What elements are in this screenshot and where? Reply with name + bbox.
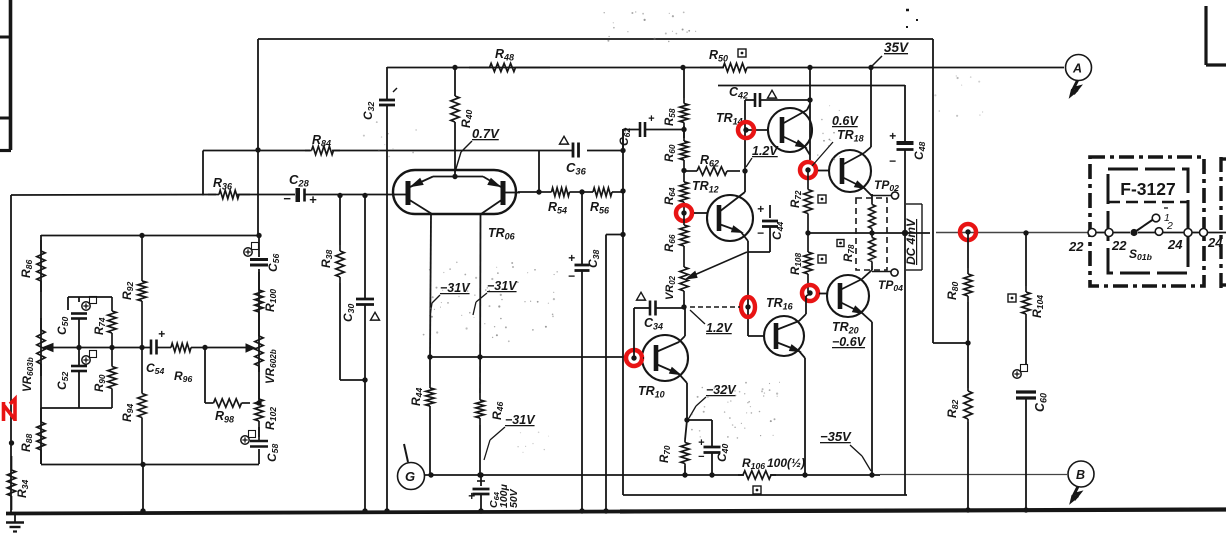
svg-text:−: − [698,451,705,463]
label 35V [872,40,909,66]
adjacent block border top-right [1206,6,1226,65]
svg-text:B: B [1076,468,1085,482]
label R98 [215,409,234,424]
terminal B [1068,461,1094,504]
node output x872 [869,230,874,235]
label 1 [1164,208,1170,224]
node y347 x112 [109,345,114,350]
node x623 y150 [620,148,625,153]
wire TR18 collector [864,67,871,153]
capacitor C34 [634,301,684,359]
svg-text:+: + [158,327,165,341]
wire TR16 collector [799,294,810,321]
wire x603 chain [603,232,625,514]
label R102 [263,407,278,430]
label TR16 [766,296,794,311]
marker triangle C30 [371,312,380,320]
svg-text:−0.6V: −0.6V [832,335,867,349]
svg-text:R74: R74 [94,317,107,335]
marker square R78 [837,240,844,247]
label TR14 [716,111,743,126]
resistor R78 [869,194,876,270]
resistor R34 [7,456,15,510]
svg-text:R48: R48 [495,47,514,62]
node x259 y403 [256,400,261,405]
red circle TR20-base node [802,285,818,301]
capacitor C56 [250,260,268,266]
label TR18 [812,128,864,166]
pot VR603b [37,318,53,376]
svg-text:R54: R54 [548,200,567,215]
svg-text:R72: R72 [790,190,803,208]
svg-text:−32V: −32V [706,383,737,397]
wire TR06 base line right [518,189,542,194]
marker square R72 [818,195,826,203]
resistor R50 [700,63,770,71]
svg-text:R86: R86 [19,260,34,278]
svg-text:1.2V: 1.2V [706,321,733,335]
wire TR10 collector [679,307,685,342]
node C64 top [478,472,483,477]
svg-text:R50: R50 [709,48,728,63]
svg-text:R106: R106 [742,456,765,471]
svg-text:C28: C28 [289,172,310,188]
resistor R44 [426,357,434,478]
label 1.2V upper [746,144,779,167]
resistor R88 [37,408,45,464]
svg-text:+: + [568,251,575,265]
node y347 x142 [139,345,144,350]
svg-text:+: + [309,192,317,207]
svg-text:R38: R38 [319,250,334,268]
node junction rail x871 [868,65,873,70]
capacitor C42 [745,93,813,107]
label R48 [495,47,514,62]
wire x205 drop [202,345,207,403]
pin 22 a [1088,229,1096,237]
resistor R98 [205,399,250,407]
stray marks top right [906,10,918,27]
label C36 [566,160,587,176]
label C52 [55,372,70,390]
testpoint TP04 [891,269,898,276]
wire -35V/G line [424,474,1067,477]
svg-text:C54: C54 [146,361,164,376]
wire input stem [10,195,12,512]
wire TR10 base [643,357,644,359]
marker plus-m C50 [82,297,97,311]
svg-text:R100: R100 [263,289,278,312]
svg-text:VR603b: VR603b [22,357,35,392]
svg-text:VR602b: VR602b [265,349,278,384]
svg-text:C42: C42 [729,85,748,100]
pin 22 b [1105,229,1113,237]
svg-text:DC 4mV: DC 4mV [904,218,918,265]
svg-text:TR20: TR20 [832,320,859,335]
wire TR18 emitter to R78 [864,188,872,196]
svg-text:R62: R62 [700,153,719,168]
wire column x684 [683,67,685,138]
switch contact 2 [1155,228,1163,236]
svg-text:−: − [757,226,764,240]
pin 24 b [1200,229,1208,237]
svg-text:C48: C48 [912,142,927,160]
wire TR12 base [694,212,707,214]
scan noise misc [363,121,549,453]
wire inner box bottom [623,494,907,496]
label 24 b [1207,235,1223,250]
wire TR06 emitter left [430,214,431,357]
label -31V b [473,279,518,315]
transistor TR14 [768,108,812,152]
node C30 bus [362,508,367,513]
label R78 [843,244,856,262]
node x623 y191 [620,188,625,193]
svg-text:−: − [568,269,575,283]
resistor R74 [108,297,116,347]
svg-text:R58: R58 [664,108,677,126]
svg-text:TP02: TP02 [874,178,899,193]
ground bus bottom [6,510,1226,514]
module F-3127 outer box [1090,157,1204,286]
wire 1.2V dashline [690,306,740,308]
label R54 [548,200,567,215]
marker triangle C34 [637,292,646,300]
switch contact 1 [1152,214,1160,222]
red circle TR12-base node [676,205,692,221]
wire TR16 base path [748,298,765,336]
node left net top x259 [256,233,261,238]
label R64 [664,187,677,205]
svg-text:−: − [889,154,896,168]
label R90 [94,374,107,392]
label C50 [55,317,70,335]
svg-text:50V: 50V [508,488,520,508]
wire right column x259 [258,235,260,464]
svg-text:22: 22 [1068,239,1084,254]
node feedback-R84 junction [255,147,260,152]
label C44 [770,222,785,240]
svg-text:+: + [468,489,475,503]
resistor R58 [680,98,688,128]
capacitor C40 [687,420,721,478]
resistor R106 [738,471,776,479]
label C38 [586,250,601,268]
wire left net bottom [41,464,259,466]
svg-text:TR10: TR10 [638,384,665,399]
terminal A [1066,55,1092,98]
label R44 [409,388,424,406]
label C40 [715,444,730,462]
label R60 [664,144,677,162]
svg-text:C34: C34 [644,316,663,331]
svg-text:−31V: −31V [440,281,471,295]
wire R84 line [203,151,539,196]
marker triangle C36 [560,136,569,144]
label R56 [590,200,610,215]
scan noise top middle [604,11,697,42]
svg-text:C30: C30 [341,304,356,322]
svg-text:R98: R98 [215,409,234,424]
svg-text:TR12: TR12 [692,179,719,194]
label R36 [213,176,233,191]
svg-text:R94: R94 [120,404,135,422]
label R88 [19,434,34,452]
label R96 [174,369,192,384]
svg-text:R44: R44 [409,388,424,406]
wire C52 column [78,347,80,408]
adjacent block border top-left [0,0,11,151]
wire feedback top [258,39,933,343]
resistor R84 [305,146,340,154]
resistor R72 [804,170,812,233]
wire TR12 collector up [0,0,1,1]
wire wiper VR602b [205,344,255,352]
svg-text:R46: R46 [490,402,505,420]
svg-text:C36: C36 [566,160,587,176]
label R100 [263,289,278,312]
svg-text:C38: C38 [586,250,601,268]
label TP02 [874,178,899,193]
wire C36 line [539,129,623,151]
node junction rail x810 [807,65,812,70]
wire C50 column [78,297,80,347]
label VR603b [22,357,35,392]
dashed box R78 [856,198,887,270]
wire inner box top [718,85,905,87]
capacitor C30 [356,193,374,512]
label C62 [617,128,632,146]
transistor TR06 [392,170,520,214]
label 22 a [1068,239,1084,254]
marker plus-m C58 [241,431,256,445]
transistor TR12 [707,192,753,241]
capacitor C28 [283,188,317,207]
svg-text:R36: R36 [213,176,233,191]
label TP04 [878,278,903,293]
svg-text:−31V: −31V [487,279,518,293]
label R82 [945,400,960,418]
label -0.6V [832,335,867,349]
label C48 [912,142,927,160]
svg-text:F-3127: F-3127 [1120,179,1175,199]
svg-text:R84: R84 [312,133,331,148]
pot VR02 [680,252,747,300]
label S01b [1129,247,1153,262]
node input stem dot [9,440,14,445]
testpoint TP02 [891,192,898,199]
pot VR602b [255,330,263,372]
wire TR20 base [819,293,828,295]
label R62 [700,153,719,168]
svg-text:TR18: TR18 [837,128,864,143]
svg-text:C56: C56 [266,254,281,272]
node R54 R56 [579,189,584,194]
label C30 [341,304,356,322]
wire TR20 emitter [862,313,872,475]
label 0.7V [455,126,500,172]
svg-text:TR06: TR06 [488,226,516,241]
node output x808 [805,230,810,235]
label 0.6V [832,114,859,128]
label C64 [488,483,520,508]
svg-text:TR16: TR16 [766,296,794,311]
svg-text:C62: C62 [617,128,632,146]
wire inner box right [904,85,906,495]
label R34 [15,480,30,498]
svg-text:R64: R64 [664,187,677,205]
node junction rail x455 [452,65,457,70]
marker triangle C42 [768,90,777,98]
svg-text:+: + [889,129,896,143]
label 22 b [1111,238,1127,253]
wire x143 to bus [140,464,145,514]
resistor R64 [680,171,688,213]
label VR02 [664,275,677,300]
label C58 [265,444,280,462]
wire long vertical x623 [622,129,624,495]
svg-text:−31V: −31V [505,413,536,427]
resistor R46 [476,393,484,478]
resistor R86 [37,240,45,292]
svg-text:0.7V: 0.7V [472,126,500,141]
label C42 [729,85,748,100]
svg-text:R78: R78 [843,244,856,262]
resistor R96 [157,343,205,351]
wire left net top [41,235,259,237]
label 24 a [1167,237,1183,252]
svg-text:−35V: −35V [820,429,852,444]
svg-text:A: A [1072,62,1082,76]
wire emitter line y357 [430,356,625,358]
capacitor C60 [1016,392,1036,513]
wire feedback to divider [933,340,971,345]
resistor R92 [138,235,146,347]
label R86 [19,260,34,278]
node 1.2V junction [681,304,686,309]
label R104 [1030,295,1045,318]
svg-text:C44: C44 [770,222,785,240]
transistor TR16 [764,316,804,356]
wire left column x41 [40,235,42,464]
transistor TR20 [827,275,869,317]
wire VR02 to node [683,300,685,307]
label -32V [689,383,737,418]
wire x745 vertical [744,100,746,192]
marker square R104 [1008,294,1016,302]
wire TR12 emitter down [741,232,748,298]
wire TR10 emitter [679,374,687,420]
scan noise near F box [934,75,983,117]
svg-text:VR02: VR02 [664,275,677,300]
svg-text:100(½): 100(½) [767,456,805,470]
capacitor C32 [379,67,397,512]
label C32 [361,102,376,120]
label R40 [459,110,474,128]
label R74 [94,317,107,335]
resistor R94 [138,347,146,464]
resistor R70 [681,420,689,478]
capacitor C64 [468,475,490,514]
label C34 [644,316,663,331]
marker plus-m C56 [244,243,259,257]
svg-text:R104: R104 [1030,295,1045,318]
label C60 [1033,393,1048,412]
label -35V [820,429,871,471]
label R66 [664,234,677,252]
label VR602b [265,349,278,384]
label R70 [659,445,672,463]
wire x810 upper [809,67,811,160]
label R92 [120,282,135,300]
wire output line to F-3127 [1096,232,1226,234]
node output x905 [902,230,908,236]
svg-text:S01b: S01b [1129,247,1153,262]
node y357 x480 [477,354,482,359]
label TR10 [638,384,665,399]
wire y408 link [41,407,112,409]
wire TR14 emitter [805,104,810,155]
marker plus-m C52 [82,351,97,365]
wire R38 join C30 [340,377,368,382]
wire TR06 emitter right [479,214,482,393]
red circle output node [960,224,976,240]
label R38 [319,250,334,268]
resistor R104 [1022,233,1030,365]
marker square R108 [818,255,826,263]
svg-text:+: + [648,113,655,125]
label R80 [945,282,960,300]
node y357 x430 [427,354,432,359]
label R106 [742,456,805,471]
wire C48 branch [0,0,1,1]
svg-text:+: + [757,202,764,216]
switch lever [1134,220,1153,233]
svg-text:R108: R108 [790,252,803,275]
label C28 [289,172,310,188]
resistor R38 [336,193,344,380]
capacitor C36 [573,143,579,158]
svg-text:R92: R92 [120,282,135,300]
svg-text:+: + [698,437,705,449]
capacitor C44 [748,202,778,252]
node x684 C62 [681,127,686,132]
capacitor C54 [151,327,165,355]
svg-text:R90: R90 [94,374,107,392]
label DC 4mV [904,218,918,265]
node junction rail x683 [680,65,685,70]
wire TR20 collector [862,270,872,279]
wire TR18 base [818,170,830,172]
resistor R56 [582,188,623,196]
svg-text:0.6V: 0.6V [832,114,859,128]
resistor R80 [964,232,972,343]
node y347 x79 [76,345,81,350]
wire output mid line [808,232,1088,235]
resistor R108 [804,233,812,293]
wire +35V rail [387,67,1064,69]
svg-text:R60: R60 [664,144,677,162]
svg-text:2: 2 [1166,220,1173,232]
node -32V junction [684,417,689,422]
svg-text:TP04: TP04 [878,278,903,293]
svg-text:R34: R34 [15,480,30,498]
red circle TR18-base node [800,162,816,178]
marker square R106 [753,486,761,494]
wire TR16 emitter [799,351,808,478]
scan noise below TR06 [423,262,558,343]
wire mid y297 [68,297,112,310]
